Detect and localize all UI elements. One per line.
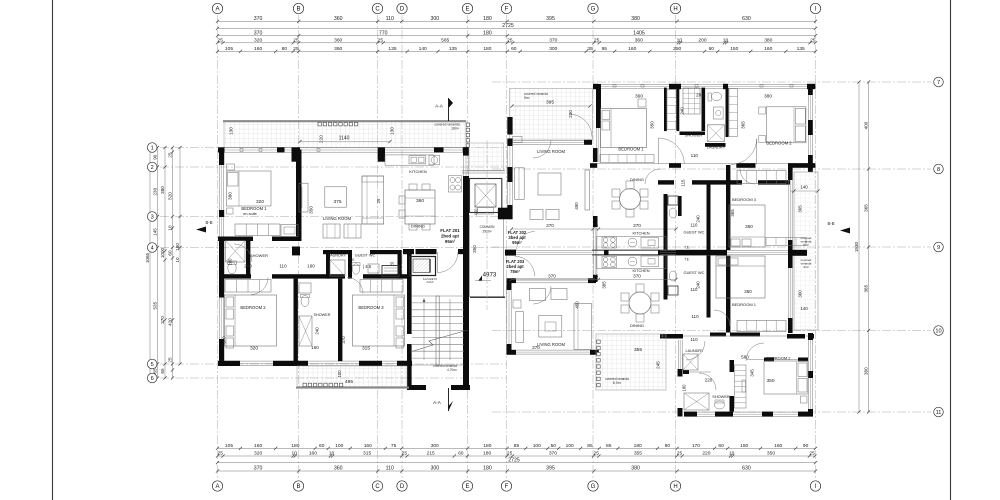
svg-text:370: 370 bbox=[633, 273, 641, 278]
svg-text:25: 25 bbox=[594, 38, 600, 44]
kitchen202 sink bbox=[628, 238, 637, 247]
south veranda balustrade bbox=[303, 383, 306, 386]
svg-text:GUEST WC: GUEST WC bbox=[684, 230, 705, 235]
lr203 north wall bbox=[516, 278, 588, 280]
ensuite toilet bbox=[228, 262, 236, 274]
svg-text:180: 180 bbox=[483, 466, 492, 472]
east veranda strip bbox=[794, 172, 818, 330]
svg-text:180: 180 bbox=[291, 443, 299, 449]
svg-text:160: 160 bbox=[364, 443, 372, 449]
svg-text:250: 250 bbox=[673, 46, 681, 52]
svg-text:180: 180 bbox=[483, 443, 491, 449]
svg-text:115: 115 bbox=[681, 179, 686, 187]
svg-text:10: 10 bbox=[175, 257, 180, 263]
common lift shaft bbox=[470, 179, 502, 213]
lr203 tv wardrobe bbox=[574, 303, 592, 349]
svg-text:10: 10 bbox=[729, 451, 735, 457]
svg-text:| 4.5: | 4.5 bbox=[363, 264, 372, 269]
svg-text:380: 380 bbox=[764, 38, 772, 44]
shower202 sink bbox=[714, 107, 724, 119]
svg-text:85: 85 bbox=[606, 443, 612, 449]
svg-text:25: 25 bbox=[217, 451, 223, 457]
common core hatch between blocks bbox=[469, 143, 504, 171]
svg-text:110: 110 bbox=[691, 314, 699, 319]
svg-text:LIVING ROOM: LIVING ROOM bbox=[323, 216, 351, 221]
svg-text:10: 10 bbox=[677, 38, 683, 44]
stairs arrow bbox=[423, 299, 425, 360]
left dim col 1 bbox=[157, 148, 159, 379]
guestwc east wall bbox=[398, 250, 402, 279]
svg-text:BEDROOM 2: BEDROOM 2 bbox=[240, 305, 266, 310]
laundry west wall bbox=[326, 250, 330, 279]
bedroom2-203 north wall bbox=[746, 359, 808, 361]
svg-text:385: 385 bbox=[864, 284, 869, 292]
svg-text:135: 135 bbox=[797, 46, 805, 52]
flat203 wing: bedroom1 west wall bbox=[726, 256, 730, 333]
window sill ticks top bbox=[613, 85, 616, 88]
svg-text:T.E.: T.E. bbox=[350, 258, 356, 262]
svg-text:230: 230 bbox=[153, 187, 158, 195]
stairs break line bbox=[410, 330, 468, 352]
svg-text:35: 35 bbox=[587, 46, 593, 52]
top dimension row 5 bbox=[218, 50, 816, 52]
svg-text:2: 2 bbox=[151, 165, 154, 171]
left dim col total 1065 bbox=[149, 148, 151, 379]
svg-text:H: H bbox=[673, 484, 677, 490]
svg-text:375: 375 bbox=[333, 199, 341, 205]
closet column 1 walls bbox=[664, 88, 667, 132]
bottom dimension row 2 bbox=[218, 455, 815, 457]
stair block north wall bbox=[403, 249, 414, 254]
svg-text:110: 110 bbox=[690, 337, 698, 342]
top veranda balustrade squares bbox=[318, 123, 321, 126]
svg-text:360: 360 bbox=[334, 38, 342, 44]
shaft box bbox=[382, 266, 399, 277]
svg-text:135: 135 bbox=[388, 46, 396, 52]
svg-text:DINING: DINING bbox=[630, 177, 644, 182]
top dimension row 2: overall 2725 bbox=[218, 27, 816, 29]
svg-text:300: 300 bbox=[549, 46, 557, 52]
right block west wall (lr202) bbox=[507, 146, 509, 167]
svg-text:350: 350 bbox=[472, 245, 477, 253]
svg-text:BEDROOM 2: BEDROOM 2 bbox=[766, 141, 792, 146]
svg-text:C: C bbox=[375, 484, 380, 490]
svg-text:365: 365 bbox=[741, 121, 746, 129]
svg-text:360: 360 bbox=[744, 289, 752, 294]
svg-text:80: 80 bbox=[282, 46, 288, 52]
svg-text:370: 370 bbox=[546, 223, 554, 228]
wing west wall bbox=[677, 340, 679, 369]
hall door arcs bbox=[234, 244, 252, 262]
bedroom1-202 west wall bbox=[596, 84, 601, 128]
bed2-203 bbox=[764, 361, 808, 394]
svg-text:25: 25 bbox=[810, 38, 816, 44]
svg-text:135: 135 bbox=[449, 46, 457, 52]
top veranda edge line bbox=[223, 120, 466, 122]
kitchen hob 201 bbox=[449, 176, 462, 193]
kitchen202 fridge bbox=[641, 238, 659, 249]
svg-text:240: 240 bbox=[315, 327, 320, 335]
svg-text:160: 160 bbox=[254, 443, 262, 449]
svg-text:400: 400 bbox=[864, 121, 869, 129]
svg-text:LIVING ROOM: LIVING ROOM bbox=[537, 342, 565, 347]
shower203 tray bbox=[684, 393, 709, 410]
svg-text:25: 25 bbox=[168, 357, 173, 363]
svg-text:B: B bbox=[296, 484, 300, 490]
svg-text:H: H bbox=[673, 7, 677, 13]
svg-text:300: 300 bbox=[430, 16, 439, 22]
svg-text:25: 25 bbox=[402, 451, 408, 457]
svg-text:BEDROOM 1: BEDROOM 1 bbox=[732, 302, 757, 307]
guestwc west wall bbox=[348, 250, 352, 279]
svg-text:C: C bbox=[375, 7, 380, 13]
shower203 north wall bbox=[683, 371, 711, 373]
svg-text:300: 300 bbox=[430, 466, 439, 472]
svg-text:1065: 1065 bbox=[145, 252, 150, 263]
corridor202 north wall bbox=[597, 162, 815, 164]
svg-text:1405: 1405 bbox=[633, 30, 645, 36]
svg-text:565: 565 bbox=[441, 38, 449, 44]
svg-text:395: 395 bbox=[546, 16, 555, 22]
svg-text:240: 240 bbox=[696, 215, 701, 223]
svg-text:SHOWER: SHOWER bbox=[250, 253, 268, 258]
living room tv wall bbox=[299, 183, 308, 212]
svg-text:320: 320 bbox=[256, 199, 264, 205]
bottom dimension row 3 bbox=[218, 470, 816, 472]
svg-text:180: 180 bbox=[483, 46, 491, 52]
east face wall of left block bbox=[462, 153, 464, 177]
coffee tables bbox=[323, 224, 340, 238]
top wall column extensions bbox=[292, 153, 301, 162]
flats entrance wall at corridor bbox=[505, 250, 516, 256]
svg-text:G: G bbox=[591, 7, 596, 13]
svg-text:370: 370 bbox=[549, 451, 557, 457]
svg-text:25: 25 bbox=[293, 38, 299, 44]
svg-text:8,7m²: 8,7m² bbox=[613, 381, 621, 385]
svg-text:200: 200 bbox=[244, 264, 252, 269]
svg-text:A: A bbox=[215, 7, 219, 13]
east wall upper bbox=[807, 89, 809, 165]
svg-text:COMMON: COMMON bbox=[480, 225, 496, 229]
dim row 370/25 upper bbox=[512, 228, 677, 230]
svg-text:130: 130 bbox=[390, 127, 395, 135]
svg-text:BEDROOM 1: BEDROOM 1 bbox=[241, 206, 267, 211]
svg-text:25: 25 bbox=[809, 451, 815, 457]
svg-text:F: F bbox=[505, 7, 509, 13]
svg-text:en-suite: en-suite bbox=[243, 212, 257, 216]
laundry202 east wall / closet2 bbox=[726, 88, 729, 137]
east wall lower bbox=[807, 340, 809, 371]
svg-text:10: 10 bbox=[723, 38, 729, 44]
right block top wall bbox=[596, 83, 813, 85]
svg-text:360: 360 bbox=[798, 290, 803, 298]
bed3-202 bbox=[729, 205, 765, 247]
svg-text:105: 105 bbox=[225, 443, 233, 449]
dresser bedroom3 202 bbox=[766, 238, 806, 246]
svg-text:350: 350 bbox=[309, 206, 314, 214]
closet strip 2 bbox=[729, 89, 738, 137]
corridor north wall bbox=[323, 250, 352, 254]
svg-text:315: 315 bbox=[362, 346, 370, 352]
svg-text:370: 370 bbox=[254, 16, 263, 22]
svg-text:160: 160 bbox=[309, 451, 317, 457]
svg-text:KITCHEN: KITCHEN bbox=[632, 231, 649, 236]
sheet frame left bbox=[52, 0, 54, 500]
stair block east wall bbox=[463, 252, 469, 390]
kitchen202 counters bbox=[597, 237, 667, 250]
svg-text:LAUNDRY: LAUNDRY bbox=[707, 144, 726, 149]
svg-text:630: 630 bbox=[742, 16, 751, 22]
bed 1 bbox=[227, 171, 272, 206]
svg-text:7: 7 bbox=[937, 80, 940, 86]
kitchen203 fridge bbox=[641, 256, 659, 267]
top veranda hatch flat201 bbox=[224, 122, 466, 148]
grid centerlines vertical A-I bbox=[217, 15, 219, 479]
svg-text:395: 395 bbox=[546, 100, 554, 106]
kitchen oven 201 bbox=[429, 155, 440, 165]
svg-text:150: 150 bbox=[730, 46, 738, 52]
top grid bubbles A-I bbox=[212, 3, 222, 13]
svg-text:370: 370 bbox=[549, 38, 557, 44]
svg-text:GUEST WC: GUEST WC bbox=[684, 270, 705, 275]
svg-text:385: 385 bbox=[602, 281, 607, 289]
svg-text:360: 360 bbox=[745, 224, 753, 229]
svg-text:495: 495 bbox=[345, 379, 353, 385]
bedroom3-202 west wall bbox=[726, 165, 730, 250]
laundry202 machine bbox=[708, 125, 725, 142]
guestwc202 fixtures bbox=[668, 196, 678, 205]
svg-text:230: 230 bbox=[568, 110, 573, 118]
svg-text:BEDROOM 3: BEDROOM 3 bbox=[358, 305, 384, 310]
svg-text:100: 100 bbox=[533, 443, 541, 449]
svg-text:215: 215 bbox=[427, 451, 435, 457]
left dim col 3 bbox=[172, 148, 174, 379]
svg-text:170: 170 bbox=[692, 443, 700, 449]
svg-text:110: 110 bbox=[386, 466, 394, 472]
svg-text:160: 160 bbox=[311, 345, 319, 350]
svg-text:180: 180 bbox=[682, 384, 687, 392]
svg-text:9: 9 bbox=[937, 245, 940, 251]
svg-text:140: 140 bbox=[419, 46, 427, 52]
living room rug bbox=[325, 187, 347, 207]
svg-text:25: 25 bbox=[376, 198, 381, 203]
svg-text:350: 350 bbox=[650, 121, 655, 129]
svg-text:220: 220 bbox=[702, 451, 710, 457]
lr202 SW corner chunk bbox=[498, 208, 508, 220]
svg-text:370: 370 bbox=[254, 30, 263, 36]
wardrobe bedroom1 202 bbox=[600, 155, 654, 163]
svg-text:180: 180 bbox=[634, 443, 642, 449]
wardrobe b1-203 bbox=[737, 321, 786, 332]
left dim col 4 bbox=[179, 148, 181, 365]
coffee table lr202 bbox=[538, 173, 561, 195]
bed 3 bbox=[353, 295, 405, 346]
grid centerlines horizontal rows 1-6 bbox=[160, 147, 507, 149]
svg-text:180: 180 bbox=[483, 451, 491, 457]
east wall mid (flat202 right) bbox=[788, 165, 793, 180]
guestwc203 east wall bbox=[707, 256, 711, 318]
svg-text:95: 95 bbox=[602, 46, 608, 52]
svg-text:25: 25 bbox=[507, 451, 513, 457]
bedroom1-203 south wall bbox=[710, 333, 726, 337]
svg-text:350: 350 bbox=[767, 451, 775, 457]
wardrobe bedroom1 bbox=[235, 224, 280, 236]
guest wc toilet bbox=[352, 264, 360, 274]
guestwc203 west wall bbox=[664, 256, 668, 300]
svg-text:9m²: 9m² bbox=[524, 96, 530, 100]
svg-text:320: 320 bbox=[254, 38, 262, 44]
svg-text:370: 370 bbox=[548, 273, 556, 278]
svg-text:50: 50 bbox=[551, 443, 557, 449]
svg-text:8: 8 bbox=[937, 167, 940, 173]
flats divider wall (kitchen stretch double line) bbox=[592, 249, 660, 251]
bedroom1 south wall bbox=[218, 237, 253, 242]
svg-text:360: 360 bbox=[334, 466, 343, 472]
shower202 south wall bbox=[680, 132, 706, 136]
svg-text:90: 90 bbox=[665, 443, 671, 449]
svg-text:320: 320 bbox=[254, 451, 262, 457]
stair door arc bbox=[438, 252, 459, 273]
lr202 north wall bbox=[512, 139, 592, 141]
svg-text:SHOWER: SHOWER bbox=[712, 394, 730, 399]
svg-text:60: 60 bbox=[168, 250, 173, 256]
kitchen203 sink bbox=[628, 257, 637, 266]
svg-text:380: 380 bbox=[864, 367, 869, 375]
svg-text:60: 60 bbox=[319, 443, 325, 449]
svg-text:DINING: DINING bbox=[411, 224, 425, 229]
svg-text:78m²: 78m² bbox=[510, 269, 520, 274]
svg-text:360: 360 bbox=[334, 46, 342, 52]
sheet frame right bbox=[950, 0, 952, 500]
tv lr202 bbox=[585, 170, 590, 210]
svg-text:535: 535 bbox=[153, 301, 158, 309]
bed1-203 bbox=[716, 256, 765, 298]
svg-text:1140: 1140 bbox=[339, 136, 350, 142]
living room corner column bbox=[292, 247, 300, 256]
svg-text:25: 25 bbox=[593, 273, 599, 278]
svg-text:25: 25 bbox=[507, 38, 513, 44]
left grid bubbles 1-6 bbox=[147, 143, 157, 153]
svg-text:320: 320 bbox=[250, 346, 258, 352]
svg-text:365: 365 bbox=[730, 209, 735, 217]
svg-text:B: B bbox=[296, 7, 300, 13]
bedside 202-1 bbox=[638, 99, 646, 107]
svg-text:90: 90 bbox=[153, 154, 158, 160]
svg-text:380: 380 bbox=[631, 466, 640, 472]
svg-text:4: 4 bbox=[151, 246, 154, 252]
svg-text:450: 450 bbox=[575, 301, 580, 309]
stair block south wall bbox=[410, 385, 426, 390]
svg-text:360: 360 bbox=[416, 198, 424, 204]
bedroom1 east wall bbox=[296, 150, 302, 237]
svg-text:180: 180 bbox=[175, 243, 180, 251]
svg-text:2bed apt: 2bed apt bbox=[441, 234, 460, 239]
kitchen202 hob bbox=[602, 237, 617, 248]
svg-text:T.E.: T.E. bbox=[684, 258, 690, 262]
svg-text:11: 11 bbox=[936, 410, 942, 416]
dim 370 row y277 bbox=[512, 279, 677, 281]
svg-text:5: 5 bbox=[151, 362, 154, 368]
armchairs lr202 bbox=[530, 210, 543, 220]
bottom grid bubbles A-I bbox=[212, 481, 222, 491]
svg-text:160: 160 bbox=[307, 264, 315, 269]
svg-text:355: 355 bbox=[634, 347, 642, 353]
svg-text:BEDROOM 3: BEDROOM 3 bbox=[732, 197, 757, 202]
ensuite shower tray bbox=[226, 241, 246, 263]
svg-text:FLAT 201: FLAT 201 bbox=[440, 228, 460, 233]
lr203 armchairs bbox=[529, 289, 545, 301]
bed1-202 bbox=[601, 109, 647, 148]
bedside 202-2 bbox=[759, 107, 766, 114]
svg-text:520: 520 bbox=[168, 192, 173, 200]
svg-text:A-A: A-A bbox=[435, 104, 444, 109]
svg-text:GUEST WC: GUEST WC bbox=[355, 254, 376, 258]
svg-text:360: 360 bbox=[635, 38, 643, 44]
svg-text:300: 300 bbox=[431, 443, 439, 449]
svg-text:D: D bbox=[400, 484, 405, 490]
svg-text:10: 10 bbox=[291, 451, 297, 457]
svg-text:360: 360 bbox=[334, 16, 343, 22]
door arcs right block bbox=[658, 138, 684, 164]
svg-text:65: 65 bbox=[160, 368, 165, 374]
svg-text:380: 380 bbox=[764, 94, 772, 100]
guest wc sink bbox=[368, 264, 379, 273]
wardrobe bedroom3 202 bbox=[737, 171, 786, 184]
link corridor walls bbox=[469, 215, 471, 297]
left block south wall bbox=[218, 360, 412, 362]
svg-text:100: 100 bbox=[337, 370, 342, 378]
svg-text:380: 380 bbox=[228, 192, 233, 200]
dining203 table bbox=[629, 292, 651, 314]
svg-text:D: D bbox=[400, 7, 405, 13]
wardrobe bedroom2 bbox=[225, 280, 271, 293]
right grid bubbles 7-11 bbox=[934, 77, 944, 87]
svg-text:200: 200 bbox=[696, 93, 704, 98]
svg-text:315: 315 bbox=[363, 451, 371, 457]
svg-text:105: 105 bbox=[225, 46, 233, 52]
left block top wall bbox=[218, 147, 463, 149]
left dim col 2 bbox=[164, 148, 166, 379]
svg-text:490: 490 bbox=[574, 202, 579, 210]
svg-text:25: 25 bbox=[217, 38, 223, 44]
dining table 201 bbox=[405, 190, 435, 224]
stair block west wall bbox=[407, 254, 412, 334]
svg-text:370: 370 bbox=[532, 345, 540, 350]
svg-text:345: 345 bbox=[750, 369, 755, 377]
sofa L bbox=[362, 176, 384, 224]
svg-text:6: 6 bbox=[151, 376, 154, 382]
svg-text:B-B: B-B bbox=[206, 220, 213, 225]
svg-text:LAUNDRY: LAUNDRY bbox=[328, 254, 347, 258]
svg-text:25: 25 bbox=[293, 46, 299, 52]
top veranda right balustrade bbox=[466, 123, 469, 126]
svg-text:110: 110 bbox=[691, 223, 699, 228]
shower mid east wall bbox=[338, 279, 342, 362]
svg-text:370: 370 bbox=[633, 223, 641, 228]
svg-text:LIVING ROOM: LIVING ROOM bbox=[537, 149, 565, 154]
stairs treads bbox=[412, 295, 464, 297]
svg-text:A: A bbox=[215, 484, 219, 490]
svg-text:1530: 1530 bbox=[854, 241, 859, 252]
svg-text:95m²: 95m² bbox=[445, 239, 456, 244]
svg-text:160: 160 bbox=[774, 443, 782, 449]
right dim col spans bbox=[868, 82, 870, 412]
svg-text:110: 110 bbox=[691, 287, 699, 292]
svg-text:BEDROOM 1: BEDROOM 1 bbox=[618, 147, 644, 152]
svg-text:140: 140 bbox=[800, 306, 808, 311]
svg-text:420: 420 bbox=[168, 318, 173, 326]
top dimension row 3 bbox=[218, 35, 816, 37]
